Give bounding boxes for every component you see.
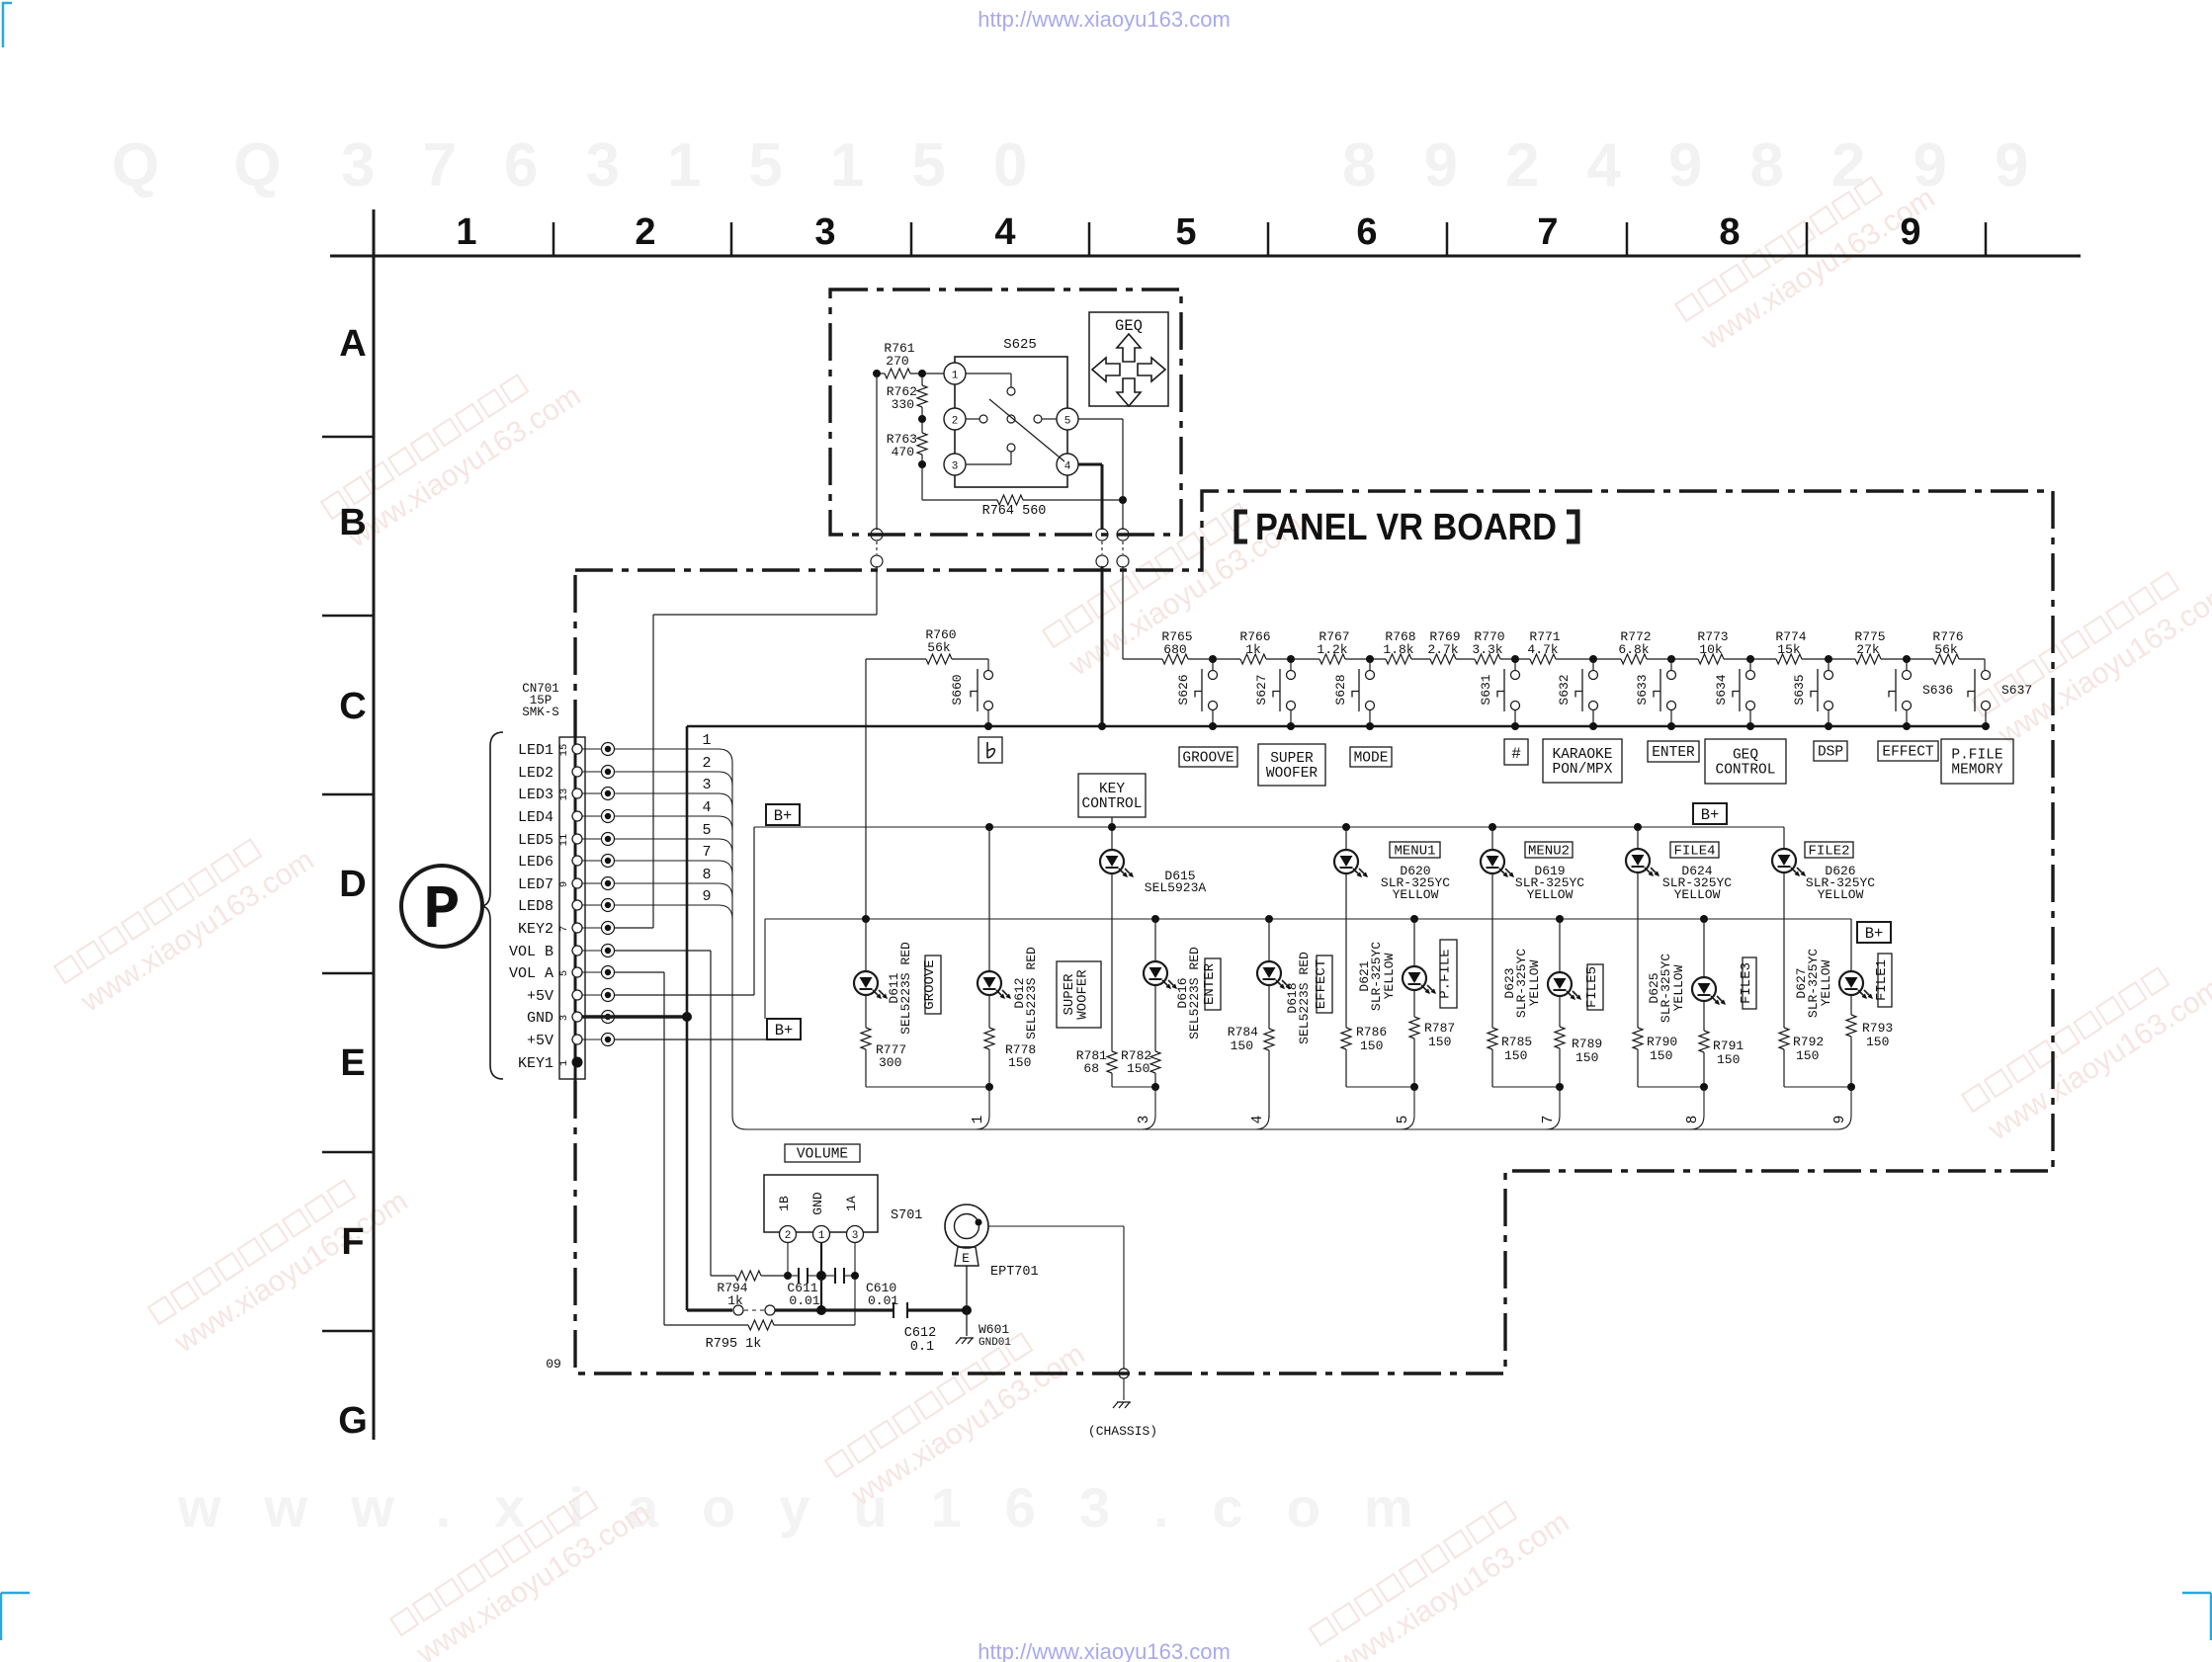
svg-text:YELLOW: YELLOW (1819, 959, 1833, 1006)
via +5V (582, 994, 601, 996)
label SUPER WOOFER (1057, 961, 1101, 1028)
wire +5V to B+ 2 (614, 1039, 767, 1040)
resistor R774 (1776, 654, 1802, 664)
node S637 GND bus (1982, 722, 1990, 730)
svg-text:1k: 1k (1245, 642, 1261, 657)
label ENTER LED (1205, 958, 1221, 1010)
wire pair to net 3 (1112, 1086, 1155, 1088)
label P.FILE LED (1440, 940, 1457, 1008)
svg-text:SEL5223S RED: SEL5223S RED (1024, 947, 1039, 1039)
svg-text:R790: R790 (1647, 1035, 1677, 1049)
corner mark bottom-left (1, 1593, 30, 1640)
svg-text:3: 3 (702, 777, 711, 793)
key switch S636 (1903, 671, 1912, 680)
pin +5V CN701 (572, 1035, 582, 1044)
svg-text:SEL5923A: SEL5923A (1145, 880, 1207, 895)
wire ladder to S634 (1749, 659, 1751, 670)
wire hook net 4 (1255, 1116, 1269, 1129)
node R763-pin3 (918, 460, 926, 468)
svg-text:YELLOW: YELLOW (1382, 953, 1397, 999)
node S632 GND bus (1589, 722, 1597, 730)
resistor R776 (1933, 654, 1959, 664)
ground W601 (966, 1310, 968, 1336)
wire net 8 from CN701 (614, 882, 719, 884)
resistor R794 (711, 1275, 735, 1277)
label GROOVE (925, 956, 941, 1014)
via LED1 (582, 748, 601, 750)
svg-text:5: 5 (702, 822, 711, 839)
wire net 9 from CN701 (614, 904, 719, 906)
resistor R770 (1475, 654, 1500, 664)
svg-text:SMK-S: SMK-S (522, 706, 559, 719)
pin LED6 CN701 (572, 856, 582, 866)
svg-text:3: 3 (558, 1015, 570, 1021)
resistor R781 (1107, 1051, 1117, 1073)
svg-text:DSP: DSP (1818, 745, 1843, 761)
wire hook net 3 (1154, 1087, 1156, 1116)
svg-text:150: 150 (1717, 1052, 1740, 1067)
svg-text:FILE3: FILE3 (1739, 962, 1754, 1004)
svg-text:B: B (339, 502, 366, 543)
wire ladder to S635 (1828, 659, 1829, 670)
node S634 GND bus (1746, 722, 1754, 730)
wire S701 pin2 (787, 1243, 789, 1276)
svg-text:15: 15 (558, 744, 570, 757)
svg-text:SEL5223S RED: SEL5223S RED (1297, 952, 1312, 1044)
capacitor C611 (788, 1275, 799, 1277)
resistor R778 (984, 1028, 994, 1049)
LED D616 (1151, 915, 1159, 923)
key switch S660 (984, 671, 993, 680)
resistor R777 (861, 1028, 871, 1049)
svg-text:5: 5 (558, 970, 570, 976)
via LED8 (582, 904, 601, 906)
resistor R784 (1264, 1029, 1274, 1050)
svg-text:S631: S631 (1479, 674, 1493, 705)
svg-text:LED8: LED8 (518, 898, 553, 915)
node W601 (962, 1305, 972, 1315)
wire +5V to B+ bus1 (614, 994, 754, 996)
svg-text:YELLOW: YELLOW (1527, 959, 1542, 1006)
svg-text:7: 7 (1537, 211, 1558, 253)
svg-text:R784: R784 (1228, 1025, 1258, 1039)
svg-text:150: 150 (1231, 1039, 1253, 1053)
svg-text:1: 1 (818, 1230, 825, 1242)
svg-text:CONTROL: CONTROL (1716, 763, 1776, 779)
potentiometer S701 (764, 1175, 878, 1232)
svg-text:7: 7 (1541, 1116, 1557, 1124)
svg-text:8: 8 (1685, 1116, 1701, 1124)
LED D625 (1700, 915, 1708, 923)
pin GND CN701 (572, 1012, 582, 1022)
wire S701 pin3 (854, 1243, 856, 1325)
label SUPER WOOFER key (1258, 744, 1325, 786)
wire ladder end to S637 (1984, 659, 1986, 670)
board outline S625 block (830, 290, 1181, 535)
switch S625 contacts (1007, 387, 1015, 395)
label KEY CONTROL (1078, 774, 1146, 817)
svg-text:S636: S636 (1922, 683, 1953, 698)
svg-text:http://www.xiaoyu163.com: http://www.xiaoyu163.com (978, 1639, 1231, 1662)
resistor R795 (664, 1324, 748, 1326)
wire pair to net 5 (1346, 1086, 1414, 1088)
svg-text:S660: S660 (950, 674, 965, 705)
svg-text:5: 5 (1396, 1116, 1411, 1124)
label B+ 2 (767, 1019, 801, 1039)
node C610 (851, 1272, 859, 1280)
resistor R773 (1698, 654, 1724, 664)
ground CHASSIS (1123, 1378, 1125, 1400)
key switch S628 (1366, 671, 1375, 680)
svg-text:S634: S634 (1714, 674, 1729, 705)
node pin4 GND bus (1098, 722, 1106, 730)
svg-text:150: 150 (1504, 1048, 1527, 1063)
wire hook net 5 (1413, 1087, 1415, 1116)
svg-text:FILE1: FILE1 (1874, 959, 1890, 1001)
wire KEY2 net from S625 (876, 566, 878, 615)
svg-text:300: 300 (879, 1055, 901, 1070)
via LED5 (582, 838, 601, 840)
pin KEY2 CN701 (572, 923, 582, 933)
svg-text:8: 8 (1719, 211, 1740, 253)
svg-text:4: 4 (1250, 1116, 1266, 1124)
svg-text:R792: R792 (1793, 1035, 1824, 1049)
svg-text:A: A (339, 323, 366, 365)
resistor R785 (1488, 1028, 1497, 1049)
svg-text:W601: W601 (978, 1322, 1009, 1337)
label MODE key (1350, 747, 1392, 767)
label B+ 3 (1693, 803, 1727, 824)
node S627 GND bus (1287, 722, 1295, 730)
wire net 4 from CN701 (614, 815, 719, 817)
wire pair to net 1 (866, 1086, 989, 1088)
wire net 7 from CN701 (614, 860, 719, 862)
svg-text:LED2: LED2 (518, 765, 553, 782)
label B+ 1 (766, 804, 800, 825)
capacitor C610 (824, 1275, 835, 1277)
node ladder S634 (1746, 655, 1754, 663)
wire VOL B (614, 950, 711, 952)
svg-text:150: 150 (1796, 1048, 1819, 1063)
svg-text:0.1: 0.1 (910, 1340, 934, 1355)
label GROOVE key (1179, 747, 1237, 767)
resistor R786 (1341, 1028, 1351, 1049)
wire R760 left to bus2 (865, 659, 867, 919)
via LED2 (582, 771, 601, 773)
resistor R769 (1430, 654, 1456, 664)
svg-text:150: 150 (1127, 1061, 1149, 1076)
svg-text:ENTER: ENTER (1202, 962, 1218, 1005)
svg-text:2: 2 (952, 416, 959, 428)
resistor R768 (1386, 654, 1411, 664)
wire ladder to S633 (1670, 659, 1672, 670)
grid top ruler line (330, 255, 2081, 258)
svg-text:MODE: MODE (1354, 751, 1389, 767)
node S636 GND bus (1903, 722, 1911, 730)
wire GND thick (582, 1015, 687, 1018)
svg-text:E: E (962, 1251, 970, 1266)
pin LED3 CN701 (572, 789, 582, 798)
svg-text:P.FILE: P.FILE (1438, 949, 1454, 998)
board outline PANEL VR BOARD (575, 491, 2053, 1373)
wire pin4 thick (1078, 463, 1102, 466)
svg-text:11: 11 (558, 834, 570, 847)
resistor R766 (1240, 654, 1266, 664)
svg-text:EFFECT: EFFECT (1314, 959, 1329, 1009)
wire pair to net 8 (1638, 1086, 1704, 1088)
rotary key switch S625 (955, 357, 1067, 487)
svg-text:E: E (340, 1042, 365, 1084)
svg-text:VOL A: VOL A (509, 965, 553, 982)
wire hook net 1 (988, 1087, 990, 1116)
wire ladder to S631 (1514, 659, 1516, 670)
svg-text:S625: S625 (1003, 337, 1037, 353)
node S631 GND bus (1511, 722, 1519, 730)
key switch S637 (1982, 671, 1991, 680)
svg-text:150: 150 (1428, 1035, 1451, 1049)
wire S625 pin4 to GND bus (1101, 566, 1104, 726)
LED D623 (1556, 915, 1564, 923)
svg-text:8: 8 (702, 867, 711, 883)
resistor R763 (921, 419, 923, 433)
svg-text:1: 1 (558, 1060, 570, 1066)
resistor R762 (921, 374, 923, 385)
svg-text:10k: 10k (1699, 642, 1723, 657)
wire ladder to S626 (1212, 659, 1214, 670)
svg-text:LED1: LED1 (518, 742, 553, 759)
svg-text:R793: R793 (1862, 1021, 1893, 1036)
via LED4 (582, 815, 601, 817)
key switch S632 (1589, 671, 1598, 680)
node R764 right (1119, 496, 1127, 504)
resistor R793 (1846, 1015, 1856, 1037)
key switch S634 (1746, 671, 1755, 680)
svg-text:GROOVE: GROOVE (1182, 751, 1234, 767)
svg-text:6.8k: 6.8k (1618, 642, 1649, 657)
LED D612 (985, 823, 993, 831)
svg-text:892498299: 892498299 (1342, 131, 2076, 200)
node S660 GND (984, 722, 992, 730)
resistor R792 (1779, 1028, 1789, 1049)
key switch S631 (1511, 671, 1520, 680)
svg-text:P: P (423, 875, 460, 946)
node S701 GND bus (816, 1305, 826, 1315)
label FILE1 LED (1878, 954, 1892, 1007)
wire hook net 7 (1559, 1087, 1561, 1116)
label PANEL VR BOARD (1236, 512, 1247, 541)
resistor R775 (1855, 654, 1881, 664)
svg-text:B+: B+ (775, 1022, 794, 1039)
svg-text:+5V: +5V (527, 988, 553, 1005)
svg-text:1A: 1A (844, 1196, 859, 1211)
resistor R771 (1530, 654, 1556, 664)
GEQ navigation icon (1089, 312, 1168, 406)
svg-text:3: 3 (952, 461, 959, 473)
node ladder S633 (1667, 655, 1675, 663)
svg-text:S626: S626 (1176, 674, 1191, 705)
node S635 GND bus (1825, 722, 1832, 730)
resistor R791 (1699, 1031, 1709, 1052)
wire ladder feed (1122, 566, 1124, 659)
svg-text:KEY: KEY (1099, 782, 1125, 797)
wire net 2 from CN701 (614, 771, 719, 773)
pin KEY1 CN701 (572, 1057, 583, 1068)
svg-text:KEY1: KEY1 (518, 1055, 553, 1072)
board border through CN701 (574, 732, 577, 1084)
key ladder wire (1123, 658, 1162, 660)
svg-text:270: 270 (886, 354, 908, 369)
label KARAOKE PON MPX key (1543, 739, 1622, 783)
svg-text:QQ: QQ (112, 131, 355, 200)
connector chassis crossing (1119, 1369, 1129, 1378)
svg-text:P.FILE: P.FILE (1951, 748, 2002, 764)
label flat key (978, 737, 1002, 763)
LED D624 (1634, 823, 1642, 831)
wire ladder to S627 (1290, 659, 1292, 670)
LED D611 (862, 915, 870, 923)
via GND (582, 1016, 601, 1018)
svg-text:6: 6 (1356, 211, 1377, 253)
svg-text:C: C (339, 686, 366, 727)
svg-text:150: 150 (1650, 1048, 1672, 1063)
svg-text:#: # (1511, 745, 1521, 763)
label EFFECT key (1878, 741, 1938, 761)
pin LED7 CN701 (572, 878, 582, 888)
pin LED8 CN701 (572, 900, 582, 910)
svg-text:3: 3 (814, 211, 835, 253)
corner mark top-left (3, 3, 12, 47)
wire KEY2 (614, 927, 653, 929)
svg-text:R787: R787 (1424, 1021, 1455, 1036)
via LED7 (582, 882, 601, 884)
wire pair to net 9 (1784, 1086, 1851, 1088)
svg-text:CONTROL: CONTROL (1082, 796, 1143, 812)
svg-text:2: 2 (635, 211, 655, 253)
node R761-R762 (918, 370, 926, 377)
node ladder S631 (1511, 655, 1519, 663)
node S626 GND bus (1209, 722, 1217, 730)
node ladder S626 (1209, 655, 1217, 663)
svg-text:5: 5 (1064, 416, 1071, 428)
key switch S627 (1287, 671, 1296, 680)
svg-text:YELLOW: YELLOW (1393, 887, 1439, 902)
label sharp key (1504, 739, 1528, 765)
svg-text:LED5: LED5 (518, 832, 553, 849)
svg-text:WOOFER: WOOFER (1266, 766, 1319, 782)
svg-text:9: 9 (558, 881, 570, 887)
svg-text:YELLOW: YELLOW (1527, 887, 1574, 902)
svg-text:EPT701: EPT701 (990, 1265, 1039, 1280)
wire pair to net 7 (1492, 1086, 1560, 1088)
svg-text:LED7: LED7 (518, 876, 553, 893)
grid left ruler line (373, 209, 376, 1440)
B+ bus upper (754, 826, 1784, 828)
svg-text:9: 9 (1832, 1116, 1848, 1124)
wire VOL A (614, 971, 664, 973)
LED D627 (1850, 919, 1852, 971)
svg-text:S637: S637 (2001, 683, 2032, 698)
B+ bus lower (765, 918, 1851, 920)
switch S625 internal wires (966, 373, 1011, 374)
svg-text:VOLUME: VOLUME (797, 1147, 848, 1163)
label P.FILE MEMORY key (1941, 739, 2013, 784)
svg-text:5: 5 (1175, 211, 1196, 253)
LED D620 (1342, 823, 1350, 831)
via +5V (582, 1039, 601, 1040)
svg-text:www.xiaoyu163.com: www.xiaoyu163.com (177, 1476, 1457, 1538)
svg-text:YELLOW: YELLOW (1674, 887, 1721, 902)
svg-text:C612: C612 (904, 1326, 936, 1341)
resistor R761 (877, 373, 885, 374)
svg-text:SEL5223S RED: SEL5223S RED (898, 942, 913, 1035)
svg-text:GND01: GND01 (978, 1337, 1011, 1349)
svg-text:13: 13 (558, 789, 570, 801)
svg-text:R791: R791 (1713, 1039, 1744, 1053)
capacitor C612 (893, 1302, 894, 1318)
wire pin5 to R764 node (1078, 418, 1123, 420)
svg-text:376315150: 376315150 (341, 131, 1074, 200)
pin VOL A CN701 (572, 967, 582, 977)
svg-text:SUPER: SUPER (1270, 751, 1314, 767)
wire chain left (873, 370, 881, 377)
svg-text:150: 150 (1866, 1035, 1889, 1049)
svg-text:PON/MPX: PON/MPX (1553, 762, 1613, 778)
resistor R787 (1409, 1017, 1419, 1039)
node S628 GND bus (1366, 722, 1374, 730)
svg-text:R786: R786 (1356, 1025, 1387, 1039)
resistor R789 (1555, 1027, 1565, 1048)
svg-text:ENTER: ENTER (1652, 745, 1695, 761)
svg-text:YELLOW: YELLOW (1818, 887, 1864, 902)
via LED3 (582, 792, 601, 794)
svg-text:GEQ: GEQ (1733, 748, 1758, 764)
watermark digits top (112, 131, 2076, 200)
LED D615 (1111, 817, 1113, 850)
svg-text:G: G (338, 1400, 368, 1442)
svg-text:68: 68 (1083, 1061, 1099, 1076)
svg-text:680: 680 (1163, 642, 1186, 657)
connector CN701 body (559, 737, 585, 1079)
key switch S633 (1667, 671, 1676, 680)
svg-text:R789: R789 (1572, 1037, 1602, 1051)
wire ladder to S628 (1369, 659, 1371, 670)
wire border crossings S625 (871, 529, 883, 540)
svg-text:09: 09 (546, 1357, 561, 1371)
svg-text:R764 560: R764 560 (982, 504, 1047, 519)
terminal EPT701 (945, 1205, 988, 1248)
svg-text:GEQ: GEQ (1115, 317, 1143, 335)
svg-text:1: 1 (702, 732, 711, 749)
label ENTER key (1648, 741, 1699, 762)
pin LED4 CN701 (572, 811, 582, 821)
svg-text:1B: 1B (777, 1196, 792, 1211)
wire EPT701 to chassis (988, 1225, 1124, 1227)
svg-text:B+: B+ (774, 807, 793, 825)
wire net 3 from CN701 (614, 792, 719, 794)
wire S701 pin1 GND (820, 1243, 822, 1310)
pin LED2 CN701 (572, 767, 582, 777)
svg-text:9: 9 (702, 888, 711, 905)
svg-text:LED6: LED6 (518, 854, 553, 871)
switch S625 wiper (989, 399, 1064, 461)
wire ladder to S632 (1592, 659, 1594, 670)
svg-text:FILE5: FILE5 (1584, 966, 1600, 1008)
svg-text:PANEL VR BOARD: PANEL VR BOARD (1255, 507, 1557, 548)
pin LED5 CN701 (572, 834, 582, 844)
node R762-R763 (918, 415, 926, 423)
node ladder S628 (1366, 655, 1374, 663)
svg-text:56k: 56k (1934, 642, 1958, 657)
